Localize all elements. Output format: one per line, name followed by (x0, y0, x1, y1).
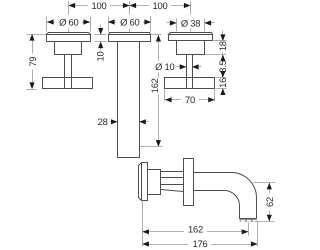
svg-text:Ø 10: Ø 10 (155, 61, 174, 72)
svg-text:Ø 60: Ø 60 (120, 16, 139, 27)
svg-text:162: 162 (149, 78, 160, 93)
svg-text:162: 162 (188, 224, 203, 235)
svg-text:Ø 38: Ø 38 (181, 17, 200, 28)
svg-text:Ø 60: Ø 60 (59, 16, 78, 27)
svg-text:79: 79 (27, 57, 38, 67)
svg-text:176: 176 (193, 238, 208, 249)
svg-text:100: 100 (153, 0, 168, 11)
svg-text:100: 100 (92, 0, 107, 11)
svg-text:28: 28 (98, 116, 108, 127)
svg-text:18: 18 (217, 41, 228, 51)
svg-text:62: 62 (264, 197, 275, 207)
svg-text:16: 16 (217, 78, 228, 88)
svg-text:70: 70 (185, 94, 195, 105)
svg-text:3.5: 3.5 (217, 60, 228, 72)
svg-text:10: 10 (95, 52, 106, 62)
